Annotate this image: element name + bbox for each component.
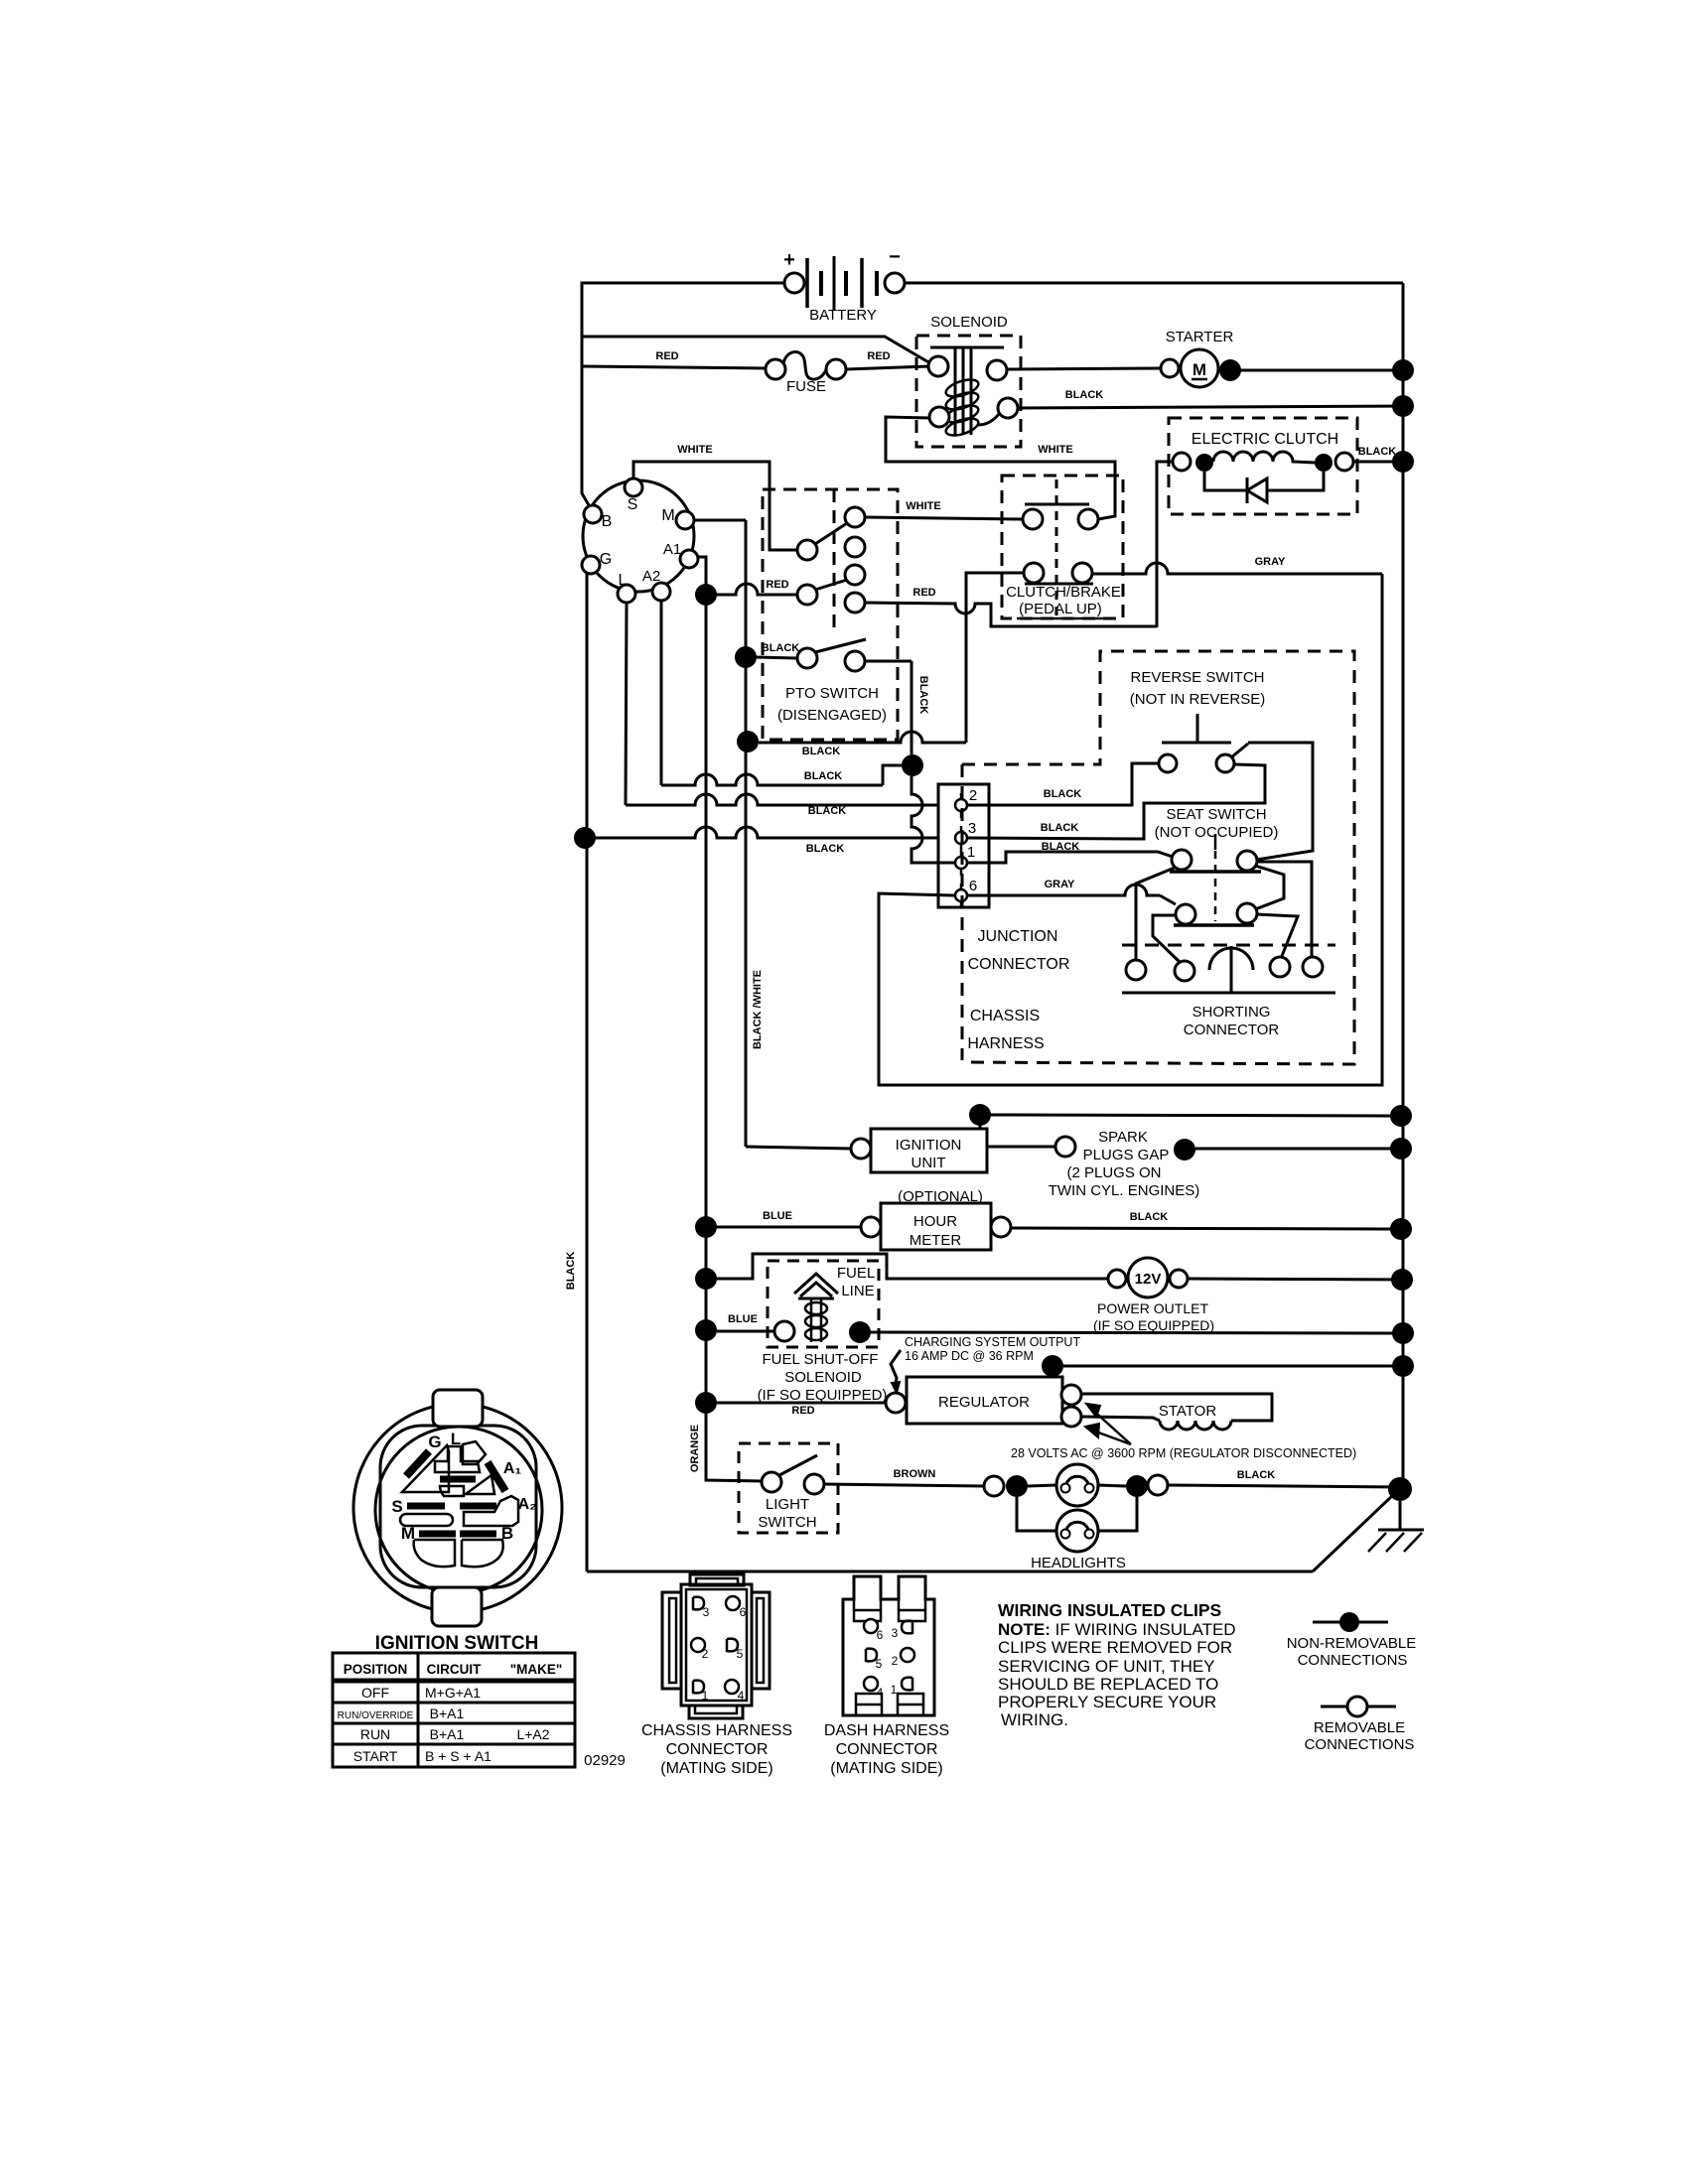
- wire seat top-right to bottom-right: [1255, 866, 1284, 909]
- label LIGHT SWITCH: [758, 1496, 816, 1531]
- svg-text:BLACK: BLACK: [1130, 1211, 1169, 1223]
- svg-text:28 VOLTS AC @ 3600 RPM (REGULA: 28 VOLTS AC @ 3600 RPM (REGULATOR DISCON…: [1011, 1446, 1356, 1460]
- svg-text:SOLENOID: SOLENOID: [784, 1369, 862, 1386]
- dash connector pin 4: [864, 1677, 884, 1700]
- key slot G bar: [406, 1451, 429, 1476]
- wire A1 to vertical: [698, 557, 706, 1478]
- wire fuse feed red: [582, 366, 766, 368]
- svg-text:POSITION: POSITION: [344, 1662, 408, 1677]
- svg-text:BLACK: BLACK: [917, 676, 929, 715]
- svg-text:B: B: [602, 513, 613, 530]
- non-removable dot black x918: [902, 754, 923, 776]
- solenoid K1 internals: [928, 347, 1018, 439]
- svg-text:SOLENOID: SOLENOID: [930, 314, 1008, 331]
- non-removable dot M pto black: [735, 646, 757, 668]
- svg-text:CONNECTOR: CONNECTOR: [1184, 1022, 1280, 1038]
- wire spark to bus: [1195, 1148, 1401, 1151]
- svg-text:1: 1: [702, 1689, 709, 1703]
- key slot B bar: [460, 1531, 496, 1538]
- svg-text:BLACK: BLACK: [802, 746, 841, 757]
- ground symbol: [1368, 1501, 1424, 1552]
- non-removable dot bus ignition: [1390, 1105, 1412, 1127]
- svg-text:REVERSE SWITCH: REVERSE SWITCH: [1130, 669, 1264, 686]
- svg-text:STARTER: STARTER: [1166, 329, 1234, 345]
- wire right bus vertical: [1402, 283, 1405, 1500]
- wire black L to junction pin2: [626, 794, 937, 805]
- wire seat top-left to shorting pin1: [1136, 868, 1175, 959]
- headlight feed terminal: [984, 1476, 1004, 1496]
- svg-text:ELECTRIC CLUTCH: ELECTRIC CLUTCH: [1192, 431, 1338, 448]
- svg-text:2: 2: [969, 787, 977, 804]
- svg-text:SERVICING OF UNIT, THEY: SERVICING OF UNIT, THEY: [998, 1657, 1215, 1676]
- wire blue to fuel solenoid: [717, 1330, 774, 1333]
- svg-text:REGULATOR: REGULATOR: [938, 1394, 1030, 1411]
- wire black junction pin1 wavy: [912, 776, 954, 863]
- svg-text:CLUTCH/BRAKE: CLUTCH/BRAKE: [1006, 584, 1121, 601]
- svg-text:BLACK: BLACK: [762, 642, 800, 654]
- svg-text:CHARGING SYSTEM OUTPUT: CHARGING SYSTEM OUTPUT: [905, 1335, 1080, 1349]
- svg-text:3: 3: [703, 1605, 710, 1619]
- wire G vertical left bus: [586, 573, 589, 1571]
- chassis connector pin 4: [725, 1680, 745, 1703]
- wire dot to headlight1: [1028, 1485, 1056, 1486]
- non-removable dot 12v tap: [695, 1268, 717, 1290]
- non-removable dot bus starter: [1392, 359, 1414, 381]
- svg-text:S: S: [628, 496, 638, 513]
- wire seat bottom-right to shorting pin3: [1257, 914, 1298, 956]
- stator terminals: [1061, 1385, 1081, 1427]
- ignition switch table: [333, 1653, 575, 1767]
- label CHARGING SYSTEM OUTPUT: [905, 1335, 1080, 1363]
- svg-text:DASH HARNESS: DASH HARNESS: [824, 1722, 949, 1739]
- svg-text:1: 1: [891, 1683, 898, 1697]
- svg-text:SPARK: SPARK: [1098, 1129, 1148, 1146]
- chassis connector pin 6: [726, 1596, 747, 1619]
- svg-text:BLACK /WHITE: BLACK /WHITE: [752, 970, 764, 1049]
- svg-text:BATTERY: BATTERY: [809, 307, 877, 324]
- junction pin 3: [955, 820, 976, 851]
- svg-text:START: START: [353, 1748, 398, 1764]
- clutch-brake dashed box: [1002, 476, 1123, 618]
- svg-text:(NOT IN REVERSE): (NOT IN REVERSE): [1130, 691, 1265, 708]
- wire hour meter to bus: [1011, 1228, 1401, 1229]
- svg-text:(IF SO EQUIPPED): (IF SO EQUIPPED): [758, 1387, 888, 1404]
- wire black pin2 to reverse switch: [967, 763, 1158, 805]
- wire seat bottom-left to shorting pin2: [1153, 915, 1180, 962]
- key slot center lower pocket: [440, 1486, 464, 1496]
- svg-text:LIGHT: LIGHT: [766, 1496, 809, 1513]
- wire black pin3 to seat switch: [967, 764, 1265, 839]
- PTO contact row3 black: [797, 639, 866, 671]
- non-removable dot fuel blue: [695, 1319, 717, 1341]
- svg-text:JUNCTION: JUNCTION: [978, 928, 1058, 945]
- svg-text:B+A1: B+A1: [430, 1706, 465, 1721]
- label FUEL LINE: [837, 1265, 875, 1299]
- power outlet 12V: [1108, 1258, 1188, 1297]
- wire A2 vertical: [660, 601, 663, 785]
- svg-text:B: B: [501, 1524, 513, 1543]
- key slot L triangle: [402, 1445, 449, 1492]
- svg-text:CIRCUIT: CIRCUIT: [427, 1662, 482, 1677]
- svg-text:BLACK: BLACK: [804, 770, 843, 782]
- fuel line dashed box: [768, 1261, 879, 1347]
- wire M to vertical: [694, 519, 746, 522]
- wire black A2 step: [661, 774, 883, 785]
- svg-text:REMOVABLE: REMOVABLE: [1314, 1719, 1405, 1736]
- wire orange to light switch: [706, 1478, 762, 1481]
- key slot M bar: [419, 1531, 456, 1538]
- wire clutch to right bus: [1353, 461, 1403, 464]
- wire brown to headlights: [824, 1484, 984, 1486]
- non-removable dot A1 red junction: [695, 584, 717, 606]
- wire M vertical bus: [745, 520, 748, 1147]
- spark plug gap terminal: [1055, 1137, 1075, 1157]
- svg-text:WHITE: WHITE: [677, 444, 712, 456]
- wire red A1 to PTO: [706, 584, 797, 595]
- svg-text:(2 PLUGS ON: (2 PLUGS ON: [1066, 1164, 1161, 1181]
- svg-text:NOTE: IF WIRING INSULATED: NOTE: IF WIRING INSULATED: [998, 1620, 1236, 1639]
- svg-text:PROPERLY SECURE YOUR: PROPERLY SECURE YOUR: [998, 1693, 1216, 1711]
- svg-text:A1: A1: [663, 541, 681, 558]
- wire seat top-right right leg: [1257, 862, 1312, 956]
- non-removable dot hour meter blue: [695, 1216, 717, 1238]
- hour meter box: [881, 1203, 991, 1250]
- wire gray pin6 to seat: [967, 885, 1160, 895]
- key slot right mid bar: [460, 1503, 496, 1510]
- svg-text:3: 3: [892, 1626, 899, 1640]
- ignition switch face bottom tab: [432, 1587, 482, 1626]
- svg-text:SHOULD BE REPLACED TO: SHOULD BE REPLACED TO: [998, 1675, 1218, 1694]
- reverse switch contacts: [1159, 744, 1248, 772]
- wire headlight1 to dot: [1098, 1485, 1126, 1486]
- svg-text:(MATING SIDE): (MATING SIDE): [830, 1760, 942, 1777]
- PTO contact row1 white: [797, 507, 865, 560]
- svg-text:RED: RED: [791, 1405, 814, 1417]
- hour meter left terminal: [861, 1217, 881, 1237]
- svg-text:BLACK: BLACK: [806, 843, 845, 855]
- svg-text:16 AMP DC @ 36 RPM: 16 AMP DC @ 36 RPM: [905, 1349, 1034, 1363]
- reverse switch bar: [1162, 714, 1231, 743]
- svg-text:ORANGE: ORANGE: [689, 1425, 701, 1472]
- PTO switch dashed box: [763, 489, 898, 740]
- svg-text:(MATING SIDE): (MATING SIDE): [660, 1760, 772, 1777]
- ignition switch face top tab: [433, 1390, 483, 1427]
- svg-text:A₂: A₂: [518, 1496, 537, 1513]
- svg-text:CONNECTOR: CONNECTOR: [666, 1741, 769, 1758]
- svg-text:CONNECTOR: CONNECTOR: [836, 1741, 938, 1758]
- svg-text:2: 2: [702, 1647, 709, 1661]
- svg-text:6: 6: [877, 1628, 884, 1642]
- wire solenoid black out: [1018, 406, 1403, 408]
- svg-text:4: 4: [877, 1686, 884, 1700]
- dash connector pin 6: [864, 1619, 884, 1642]
- wire clutch left leg: [1157, 462, 1173, 627]
- svg-text:WIRING INSULATED CLIPS: WIRING INSULATED CLIPS: [998, 1600, 1221, 1620]
- svg-text:PTO SWITCH: PTO SWITCH: [785, 685, 879, 702]
- svg-text:GRAY: GRAY: [1255, 556, 1286, 568]
- chassis connector pin 2: [691, 1638, 709, 1661]
- wire fuel to bus: [871, 1332, 1403, 1333]
- dash harness connector drawing: [843, 1576, 934, 1715]
- clutch-brake pedal contacts top: [1023, 504, 1098, 529]
- svg-text:GRAY: GRAY: [1045, 879, 1075, 890]
- chassis harness connector drawing: [662, 1574, 770, 1718]
- label WIRING INSULATED CLIPS note: [998, 1600, 1236, 1729]
- PTO switch divider dashed: [833, 489, 836, 635]
- legend non-removable connection: [1287, 1612, 1417, 1669]
- stator arrows: [1085, 1404, 1131, 1444]
- junction pin 1: [955, 844, 975, 876]
- svg-text:(DISENGAGED): (DISENGAGED): [777, 707, 887, 724]
- wire fuse to solenoid: [846, 366, 929, 369]
- non-removable dot starter: [1219, 359, 1241, 381]
- svg-text:IGNITION SWITCH: IGNITION SWITCH: [375, 1633, 539, 1654]
- svg-text:A₁: A₁: [503, 1460, 522, 1477]
- svg-text:IGNITION: IGNITION: [896, 1137, 962, 1154]
- chassis connector pin 5: [727, 1639, 744, 1661]
- svg-text:3: 3: [968, 820, 976, 837]
- svg-text:WIRING.: WIRING.: [1001, 1710, 1068, 1729]
- stator box and coil: [1081, 1394, 1272, 1430]
- svg-text:UNIT: UNIT: [912, 1155, 946, 1171]
- svg-text:+: +: [783, 249, 795, 271]
- key slot A2 hook: [464, 1496, 518, 1526]
- svg-text:RED: RED: [766, 579, 788, 591]
- non-removable dot fuel out: [849, 1321, 871, 1343]
- wire 12v bypass over fuel box: [706, 1254, 1108, 1279]
- svg-text:CLIPS WERE REMOVED FOR: CLIPS WERE REMOVED FOR: [998, 1638, 1232, 1657]
- electric clutch dashed box: [1169, 418, 1357, 514]
- svg-text:6: 6: [969, 878, 977, 894]
- svg-text:HOUR: HOUR: [913, 1213, 957, 1230]
- svg-text:RED: RED: [912, 587, 935, 599]
- svg-text:S: S: [391, 1497, 402, 1516]
- wire bottom bus: [587, 1570, 1313, 1573]
- ignition unit box: [871, 1129, 987, 1172]
- ignition switch S1 circle: [582, 478, 698, 603]
- svg-text:CHASSIS: CHASSIS: [970, 1008, 1040, 1024]
- key slot top right flag: [463, 1441, 486, 1464]
- svg-text:NON-REMOVABLE: NON-REMOVABLE: [1287, 1635, 1417, 1652]
- regulator box: [907, 1377, 1062, 1424]
- svg-text:POWER OUTLET: POWER OUTLET: [1097, 1300, 1208, 1316]
- clutch-brake pedal contacts bottom: [1024, 563, 1093, 584]
- svg-text:M: M: [661, 507, 674, 524]
- non-removable dot regulator red: [695, 1392, 717, 1414]
- non-removable dot bus clutch: [1392, 451, 1414, 473]
- junction pin 6: [955, 878, 977, 908]
- wire red pto out: [865, 603, 1157, 626]
- junction pin 2: [955, 787, 977, 818]
- svg-text:SHORTING: SHORTING: [1193, 1004, 1271, 1021]
- dash connector pin D5: [866, 1649, 883, 1671]
- svg-text:5: 5: [737, 1647, 744, 1661]
- wire headlights to bus black: [1168, 1485, 1400, 1487]
- non-removable dot bus ground: [1388, 1477, 1412, 1501]
- seat switch plunger dashed: [1214, 834, 1217, 921]
- chassis connector pin D1: [693, 1681, 709, 1703]
- junction connector box: [938, 784, 989, 907]
- svg-text:FUSE: FUSE: [786, 378, 826, 395]
- svg-text:FUEL: FUEL: [837, 1265, 875, 1282]
- svg-text:4: 4: [738, 1689, 745, 1703]
- svg-text:BROWN: BROWN: [894, 1468, 936, 1480]
- svg-text:L: L: [451, 1430, 461, 1448]
- PTO contact row2 red: [797, 565, 865, 613]
- wire S white up: [633, 462, 797, 550]
- svg-text:WHITE: WHITE: [906, 500, 940, 512]
- non-removable dot headlight left: [1006, 1475, 1028, 1497]
- svg-text:SWITCH: SWITCH: [758, 1514, 816, 1531]
- svg-text:5: 5: [876, 1657, 883, 1671]
- svg-text:WHITE: WHITE: [1038, 444, 1072, 456]
- wire starter to right bus: [1240, 369, 1403, 372]
- wire gray clutch-brake out: [1092, 563, 1382, 574]
- wire ignition unit to spark gap: [987, 1146, 1055, 1149]
- light switch dashed box: [739, 1443, 838, 1533]
- svg-text:RUN/OVERRIDE: RUN/OVERRIDE: [338, 1710, 414, 1721]
- wire red to regulator: [717, 1402, 886, 1405]
- non-removable dot bus regulator: [1392, 1355, 1414, 1377]
- svg-text:BLACK: BLACK: [1237, 1469, 1276, 1481]
- svg-text:B+A1: B+A1: [430, 1726, 465, 1742]
- fuel shut-off solenoid symbol: [774, 1274, 838, 1342]
- svg-text:G: G: [600, 551, 612, 568]
- wire black G bus to junction pin3: [596, 827, 937, 838]
- shorting connector arc: [1209, 946, 1253, 993]
- svg-text:G: G: [428, 1433, 441, 1451]
- legend removable connection: [1305, 1697, 1415, 1753]
- svg-text:BLACK: BLACK: [808, 805, 847, 817]
- svg-text:CONNECTIONS: CONNECTIONS: [1305, 1736, 1415, 1753]
- wire white solenoid leg: [886, 417, 1115, 519]
- solenoid dashed box: [916, 336, 1021, 447]
- key slot center bar: [440, 1476, 476, 1483]
- key slot right triangle pocket: [466, 1475, 494, 1494]
- wire black pin1 to seat: [967, 852, 1173, 863]
- wire black pto bottom to clutch-brake leg: [759, 732, 966, 743]
- wire battery positive lead / left bus top: [582, 283, 784, 510]
- wire regulator top to bus: [1063, 1365, 1403, 1368]
- non-removable dot spark: [1174, 1139, 1195, 1160]
- regulator input terminal: [886, 1393, 906, 1413]
- svg-text:BLACK: BLACK: [1065, 389, 1104, 401]
- svg-text:L+A2: L+A2: [516, 1726, 549, 1742]
- hour meter right terminal: [991, 1217, 1011, 1237]
- light switch contacts: [762, 1455, 824, 1494]
- key slot S bar: [407, 1503, 445, 1510]
- svg-text:BLACK: BLACK: [1358, 446, 1397, 458]
- wire battery tap to solenoid (diagonal): [582, 337, 930, 363]
- svg-text:(IF SO EQUIPPED): (IF SO EQUIPPED): [1093, 1317, 1214, 1333]
- svg-text:L: L: [619, 572, 628, 589]
- svg-text:BLACK: BLACK: [1044, 788, 1082, 800]
- headlight lamp 2 loop: [1017, 1497, 1137, 1552]
- electric clutch coil: [1173, 452, 1353, 472]
- label DASH HARNESS CONNECTOR: [824, 1722, 949, 1777]
- wire reverse to seat top-right: [1248, 743, 1313, 860]
- key slot bottom left lobe: [414, 1540, 455, 1567]
- ignition switch face outer rings: [353, 1404, 562, 1612]
- non-removable dot G black junction: [574, 827, 596, 849]
- headlight lamp 1: [1056, 1464, 1098, 1506]
- key slot A1 bar: [488, 1462, 505, 1491]
- wire black vertical x918: [911, 661, 913, 754]
- shorting connector bar: [1122, 992, 1335, 995]
- label SPARK PLUGS GAP: [1049, 1129, 1200, 1199]
- key slot center T pocket: [435, 1446, 480, 1472]
- charging output arrow: [891, 1350, 901, 1385]
- seat switch contacts top: [1170, 850, 1261, 872]
- starter M1: [1161, 329, 1233, 387]
- wire solenoid to starter: [1007, 368, 1161, 369]
- shorting connector pins: [1126, 957, 1323, 981]
- non-removable dot ignition top: [969, 1104, 991, 1126]
- svg-text:(PEDAL UP): (PEDAL UP): [1019, 601, 1102, 617]
- svg-text:METER: METER: [910, 1232, 962, 1249]
- non-removable dot regulator top: [1042, 1355, 1063, 1377]
- non-removable dot bus solenoid: [1392, 395, 1414, 417]
- non-removable dot headlight right: [1126, 1475, 1148, 1497]
- diode D1 clutch: [1204, 472, 1324, 503]
- wire bottom diagonal to ground dot: [1313, 1494, 1394, 1571]
- svg-text:HARNESS: HARNESS: [967, 1035, 1044, 1052]
- ignition unit left terminal: [851, 1139, 871, 1159]
- wire 12v to bus: [1188, 1279, 1402, 1280]
- key slot left oval: [400, 1514, 453, 1526]
- svg-text:M: M: [401, 1524, 415, 1543]
- svg-text:CHASSIS HARNESS: CHASSIS HARNESS: [641, 1722, 792, 1739]
- wire gray vertical right: [879, 574, 1382, 1085]
- label FUEL SHUT-OFF SOLENOID: [758, 1351, 888, 1404]
- svg-text:CONNECTOR: CONNECTOR: [968, 956, 1070, 973]
- svg-text:HEADLIGHTS: HEADLIGHTS: [1031, 1555, 1126, 1571]
- svg-text:RED: RED: [867, 350, 890, 362]
- seat switch contacts bottom: [1174, 903, 1257, 925]
- svg-text:OFF: OFF: [361, 1685, 389, 1701]
- svg-text:BLACK: BLACK: [1041, 822, 1079, 834]
- wire white pto to clutch-brake: [865, 517, 1023, 519]
- fuse F1: [766, 352, 846, 395]
- svg-text:A2: A2: [642, 568, 660, 585]
- headlight right terminal: [1148, 1475, 1168, 1495]
- chassis harness dashed boundary: [961, 764, 964, 1060]
- svg-text:M+G+A1: M+G+A1: [425, 1685, 481, 1701]
- svg-text:RUN: RUN: [360, 1726, 390, 1742]
- dash connector pin 3: [892, 1621, 912, 1640]
- non-removable dot bus 12v: [1391, 1269, 1413, 1291]
- label CHASSIS HARNESS CONNECTOR: [641, 1722, 792, 1777]
- svg-text:SEAT SWITCH: SEAT SWITCH: [1166, 806, 1266, 823]
- non-removable dot bus spark: [1390, 1138, 1412, 1160]
- key slot bottom right lobe: [462, 1540, 503, 1567]
- svg-text:M: M: [1193, 360, 1206, 379]
- svg-text:BLUE: BLUE: [728, 1313, 758, 1325]
- wire blue hour meter: [717, 1226, 861, 1229]
- svg-text:"MAKE": "MAKE": [510, 1662, 563, 1677]
- svg-text:1: 1: [967, 844, 975, 861]
- svg-text:FUEL SHUT-OFF: FUEL SHUT-OFF: [763, 1351, 879, 1368]
- svg-text:PLUGS GAP: PLUGS GAP: [1083, 1147, 1170, 1163]
- wire L vertical: [626, 603, 627, 805]
- svg-text:12V: 12V: [1135, 1271, 1162, 1288]
- svg-text:−: −: [889, 246, 901, 268]
- shorting connector dashed mating line: [1122, 944, 1335, 947]
- svg-text:6: 6: [740, 1605, 747, 1619]
- wire ignition top to bus: [970, 1115, 980, 1128]
- svg-text:2: 2: [892, 1654, 899, 1668]
- dash connector pin 1: [891, 1678, 912, 1697]
